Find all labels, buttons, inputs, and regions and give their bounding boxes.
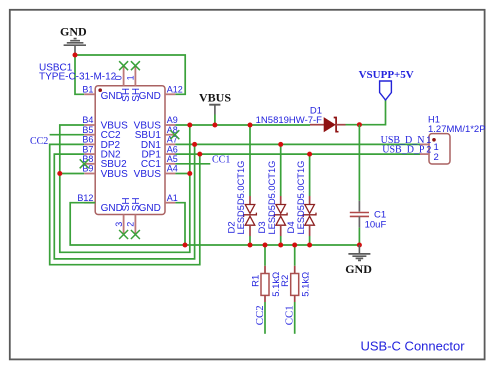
junction GND flag: [73, 53, 78, 58]
svg-text:GND: GND: [101, 203, 123, 214]
ground flag GND (bottom): [345, 245, 372, 276]
junction D3 bottom: [278, 243, 283, 248]
svg-text:LESD5D5.0CT1G: LESD5D5.0CT1G: [236, 161, 246, 235]
pin A5: [165, 154, 178, 164]
junction R2 top: [292, 243, 297, 248]
svg-text:B1: B1: [82, 85, 93, 95]
svg-text:1N5819HW-7-F: 1N5819HW-7-F: [256, 115, 323, 126]
svg-text:1: 1: [125, 75, 135, 80]
wire DP2 loop: [50, 144, 200, 264]
junction A1: [183, 243, 188, 248]
svg-text:A9: A9: [167, 115, 178, 125]
pin B6: [82, 135, 95, 145]
svg-text:GND: GND: [101, 91, 123, 102]
svg-text:CC1: CC1: [212, 155, 230, 166]
wire VSUPP from D1 to flag: [346, 100, 386, 125]
junction R1 top: [263, 243, 268, 248]
svg-text:A6: A6: [167, 144, 178, 154]
pin A1: [165, 193, 178, 203]
TVS diode D4 LESD5D5.0CT1G: [286, 154, 316, 245]
pin A4: [165, 164, 178, 174]
pin SH 3 (bottom): [114, 215, 124, 235]
pin A8: [165, 125, 178, 135]
wire VBUS B9 stub: [60, 173, 84, 175]
svg-text:A12: A12: [167, 85, 183, 95]
pin A9: [165, 115, 178, 125]
svg-text:USB-C Connector: USB-C Connector: [361, 338, 466, 353]
svg-text:0: 0: [114, 75, 124, 80]
power flag VBUS: [199, 91, 231, 125]
no-connect X on SH2: [131, 230, 140, 239]
svg-text:5.1kΩ: 5.1kΩ: [301, 272, 312, 297]
wire GND bottom loop B12/A1: [70, 203, 359, 245]
wire VBUS row A9 to D1 anode: [175, 124, 310, 126]
svg-text:B6: B6: [82, 135, 93, 145]
svg-text:A1: A1: [167, 193, 178, 203]
svg-text:B12: B12: [77, 193, 93, 203]
junction DP1: [197, 152, 202, 157]
connector H1 1.27MM/1*2P: [420, 115, 486, 165]
svg-text:VBUS: VBUS: [199, 91, 231, 105]
no-connect X on A8: [170, 130, 179, 139]
wire VBUS vertical right: [60, 125, 190, 252]
svg-text:GND: GND: [60, 25, 87, 39]
resistor R1 5.1k: [250, 245, 281, 334]
svg-text:LESD5D5.0CT1G: LESD5D5.0CT1G: [296, 161, 306, 235]
pin B12: [77, 193, 95, 203]
capacitor C1 10uF: [350, 125, 387, 245]
svg-text:B8: B8: [82, 154, 93, 164]
TVS diode D2 LESD5D5.0CT1G: [227, 125, 257, 245]
svg-text:TYPE-C-31-M-12: TYPE-C-31-M-12: [39, 72, 117, 83]
svg-text:GND: GND: [345, 262, 372, 276]
svg-text:10uF: 10uF: [365, 220, 387, 231]
svg-text:B7: B7: [82, 144, 93, 154]
pin B5: [82, 125, 95, 135]
diode D1 1N5819HW-7-F: [256, 106, 346, 132]
svg-text:1: 1: [426, 135, 431, 145]
ground flag GND (top left): [60, 25, 87, 53]
junction VBUS A9: [187, 123, 192, 128]
pin B9: [82, 164, 95, 174]
wire CC2 B5 stub: [50, 134, 85, 136]
no-connect X on SH3: [119, 230, 128, 239]
junction DN1: [192, 142, 197, 147]
junction D4 top: [307, 152, 312, 157]
wire CC1 A5 stub: [175, 163, 210, 165]
TVS diode D3 LESD5D5.0CT1G: [257, 144, 287, 245]
svg-text:VBUS: VBUS: [134, 169, 162, 180]
junction VBUS A4: [187, 171, 192, 176]
USBC1 origin mark: [98, 88, 102, 92]
pin B4: [82, 115, 95, 125]
wire VBUS A4 stub: [175, 173, 189, 175]
svg-text:2: 2: [426, 145, 431, 155]
pin A7: [165, 135, 178, 145]
svg-text:B5: B5: [82, 125, 93, 135]
junction VBUS flag: [212, 123, 217, 128]
svg-text:CC1: CC1: [284, 305, 296, 325]
no-connect X on B8: [80, 159, 89, 168]
svg-text:2: 2: [434, 152, 439, 163]
svg-text:LESD5D5.0CT1G: LESD5D5.0CT1G: [267, 161, 277, 235]
no-connect X on SH0: [119, 61, 128, 70]
pin SH 2 (bottom): [126, 215, 136, 235]
svg-text:2: 2: [126, 222, 136, 227]
junction D4 bottom: [307, 243, 312, 248]
wire DP1: A6 to H1 pin2: [175, 153, 420, 155]
junction D3 top: [278, 142, 283, 147]
resistor R2 5.1k: [280, 245, 311, 334]
pin B8: [82, 154, 95, 164]
junction VBUS B9: [57, 171, 62, 176]
svg-text:3: 3: [114, 222, 124, 227]
svg-text:USB_D_P: USB_D_P: [382, 145, 425, 156]
svg-text:VBUS: VBUS: [101, 169, 129, 180]
svg-text:A5: A5: [167, 154, 178, 164]
svg-text:A4: A4: [167, 164, 178, 174]
junction C1 bottom / GND: [357, 243, 362, 248]
pin B1: [82, 85, 95, 95]
svg-text:SH: SH: [131, 88, 142, 102]
svg-text:SH: SH: [131, 197, 142, 211]
svg-text:VSUPP+5V: VSUPP+5V: [359, 69, 414, 81]
no-connect X on SH1: [131, 61, 140, 70]
pin B7: [82, 144, 95, 154]
pin A6: [165, 144, 178, 154]
svg-text:B4: B4: [82, 115, 93, 125]
pin A12: [165, 85, 183, 95]
junction D2 bottom: [248, 243, 253, 248]
pin SH 0 (top): [114, 66, 124, 86]
svg-text:CC2: CC2: [30, 136, 48, 147]
connector inside pin names: [101, 88, 162, 214]
pin SH 1 (top): [125, 66, 135, 86]
svg-text:R2: R2: [280, 275, 291, 287]
svg-text:B9: B9: [82, 164, 93, 174]
power flag VSUPP+5V: [359, 69, 414, 100]
junction D2 top: [248, 123, 253, 128]
connector USBC1 body: [95, 86, 165, 215]
wire DN1: A7 to H1 pin1: [175, 143, 420, 145]
wire DN2 loop: [54, 144, 194, 259]
junction C1 top: [357, 122, 362, 127]
svg-text:1.27MM/1*2P: 1.27MM/1*2P: [428, 124, 486, 135]
svg-text:CC2: CC2: [254, 305, 266, 325]
wire GND net: flag to B1 and A12: [75, 55, 185, 94]
svg-text:R1: R1: [250, 275, 261, 287]
